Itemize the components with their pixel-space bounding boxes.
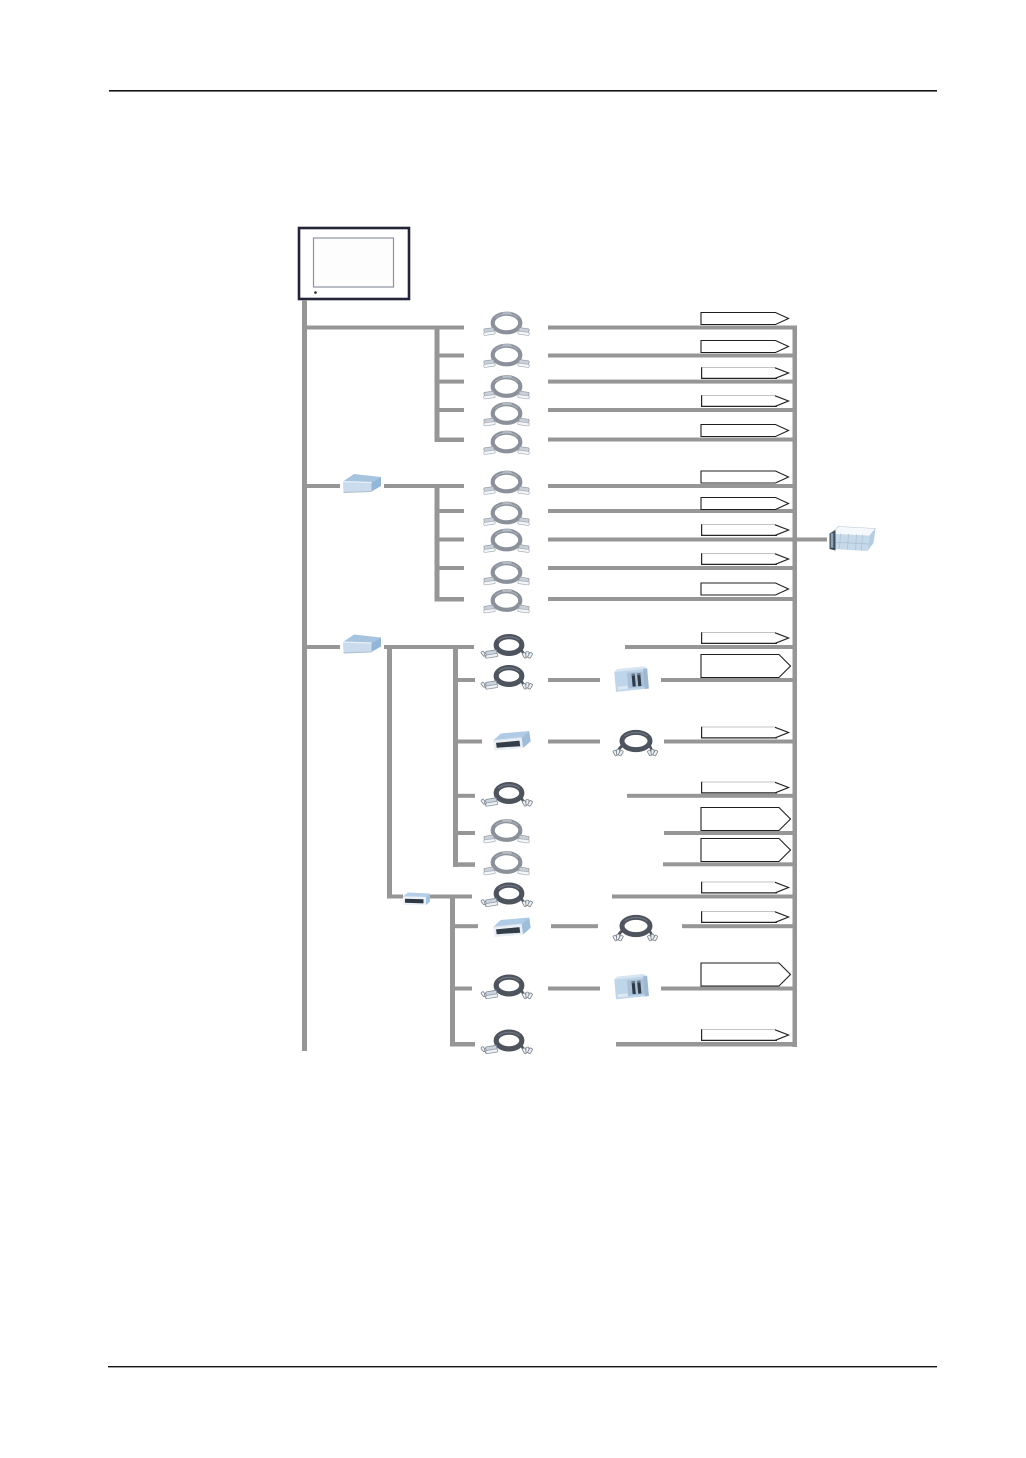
group4 elbow wire from long vertical xyxy=(387,895,403,899)
label arrow row16 tall xyxy=(701,839,791,862)
wire row7 right xyxy=(548,509,797,513)
right bus wire xyxy=(793,326,798,1048)
cable W18 octopus right xyxy=(613,917,658,941)
server D8 xyxy=(830,527,876,552)
wire row20 right xyxy=(616,1042,797,1047)
switch SW2 xyxy=(343,474,381,493)
cable W15 xyxy=(483,821,530,843)
cable W1 xyxy=(483,313,530,335)
wire row3 right xyxy=(548,380,797,384)
label arrow row14 xyxy=(701,782,789,794)
wire row12 right xyxy=(661,678,797,682)
trunk wire xyxy=(302,300,307,1051)
label arrow row1 xyxy=(701,313,789,325)
cable W2 xyxy=(483,345,530,367)
wire row5 right xyxy=(548,438,797,442)
label arrow row13 xyxy=(701,727,789,739)
group3 stub wire row13 xyxy=(457,740,482,744)
monitor U1 screen xyxy=(314,238,394,287)
label arrow row17 xyxy=(701,882,789,894)
label arrow row8 xyxy=(701,524,789,536)
wire row9 right xyxy=(548,566,797,570)
cable W3 xyxy=(483,377,530,399)
group2 elbow wire row10 xyxy=(435,597,465,602)
group1 branch wire row1 left xyxy=(302,326,464,330)
wire row10 right xyxy=(548,597,797,601)
label arrow row4 xyxy=(701,395,789,407)
group2 stub wire row8 xyxy=(439,538,464,542)
label arrow row18 xyxy=(701,911,789,923)
header rule xyxy=(109,90,937,92)
group1 sub-bus wire xyxy=(435,326,440,443)
wire row19 right xyxy=(661,987,797,991)
wire row12 mid xyxy=(548,678,600,682)
cable W12 octopus xyxy=(481,668,533,690)
wire row8 right to server xyxy=(548,538,827,542)
group4 sub-bus wire xyxy=(450,895,455,1047)
cable W20 octopus xyxy=(481,1032,533,1054)
wire row2 right xyxy=(548,354,797,358)
label arrow row10 xyxy=(701,583,789,595)
wire row13 mid xyxy=(548,740,600,744)
wire row18 mid xyxy=(551,924,598,928)
wire row16 right xyxy=(663,862,797,866)
monitor U1 power LED xyxy=(314,291,317,294)
label arrow row20 xyxy=(701,1029,789,1041)
group1 stub wire row4 xyxy=(439,408,464,412)
wire row11 right xyxy=(625,645,797,649)
group2 branch wire row6 mid xyxy=(384,484,464,488)
group4 stub wire row18 xyxy=(454,924,478,928)
label arrow row12 tall xyxy=(701,655,791,678)
group1 elbow wire row5 xyxy=(435,438,465,443)
cable W13 octopus right xyxy=(613,732,658,756)
cable W5 xyxy=(483,432,530,454)
group3 branch wire row11 mid xyxy=(384,645,474,649)
group3 branch wire row11 left xyxy=(302,645,340,649)
label arrow row15 tall xyxy=(701,808,791,831)
wire row6 right xyxy=(548,484,797,488)
cable W9 xyxy=(483,563,530,585)
group4 branch wire row17 mid xyxy=(430,895,472,899)
group3 stub wire row12 xyxy=(457,678,475,682)
label arrow row5 xyxy=(701,425,789,437)
wire row1 right xyxy=(548,326,797,330)
cable W19 octopus xyxy=(481,977,533,999)
group3 stub wire row15 xyxy=(457,831,475,835)
wire row4 right xyxy=(548,408,797,412)
group3 elbow wire row16 xyxy=(453,862,475,867)
wire row13 right xyxy=(664,740,797,744)
long vertical wire to group4 xyxy=(387,645,392,899)
group1 stub wire row3 xyxy=(439,380,464,384)
monitor U1 outer frame xyxy=(299,228,409,299)
wire row19 mid xyxy=(548,987,600,991)
wire row14 right xyxy=(627,794,797,798)
converter D18 xyxy=(492,916,531,938)
cable W6 xyxy=(483,472,530,494)
cable W10 xyxy=(483,591,530,613)
cable W7 xyxy=(483,503,530,525)
group3 stub wire row14 xyxy=(457,794,475,798)
label arrow row19 tall xyxy=(701,963,791,986)
module D12 xyxy=(614,666,649,692)
cable W4 xyxy=(483,404,530,426)
label arrow row9 xyxy=(701,553,789,565)
label arrow row7 xyxy=(701,498,789,510)
group2 stub wire row9 xyxy=(439,566,464,570)
wire row18 right xyxy=(682,924,797,928)
wire row17 right xyxy=(612,895,797,899)
cable W16 xyxy=(483,853,530,875)
label arrow row11 xyxy=(701,632,789,644)
cable W17 octopus xyxy=(481,885,533,907)
cable W11 octopus xyxy=(481,637,533,659)
cable W8 xyxy=(483,530,530,552)
wire row15 right xyxy=(664,831,797,835)
module D19 xyxy=(614,974,649,1000)
label arrow row2 xyxy=(701,341,789,353)
label arrow row6 xyxy=(701,471,789,483)
group4 elbow wire row20 xyxy=(450,1042,475,1047)
switch SW3 xyxy=(343,635,381,654)
hub SW4 xyxy=(403,893,430,906)
converter D13 xyxy=(492,730,531,752)
footer rule xyxy=(108,1366,937,1367)
group2 sub-bus wire xyxy=(435,484,440,602)
group4 stub wire row19 xyxy=(454,987,472,991)
group2 branch wire row6 left xyxy=(302,484,340,488)
cable W14 octopus xyxy=(481,785,533,807)
group2 stub wire row7 xyxy=(439,509,464,513)
group1 stub wire row2 xyxy=(439,354,464,358)
group3 sub-bus wire xyxy=(453,645,458,867)
label arrow row3 xyxy=(701,367,789,379)
